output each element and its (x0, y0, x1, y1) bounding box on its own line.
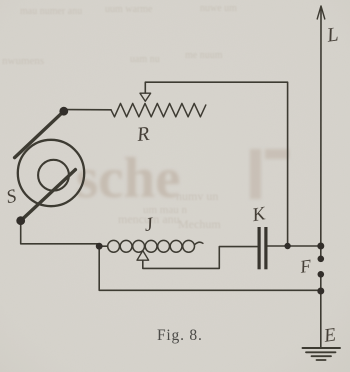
node: coil branch (96, 243, 103, 250)
device S : inner circle (38, 160, 69, 191)
potentiometer wiper triangle on R (140, 93, 151, 101)
coil J lead (99, 245, 108, 247)
antenna wire (vertical) upper part (320, 7, 322, 259)
svg-text:R: R (135, 123, 150, 146)
node: S top terminal (59, 107, 68, 116)
wire from coil wiper down right and up to capacitor (143, 247, 257, 269)
coil J end tail (194, 242, 203, 245)
resistor R zigzag (111, 103, 206, 116)
capacitor K plates (258, 227, 268, 269)
svg-text:uam nu: uam nu (130, 54, 160, 65)
wire from S top dot to resistor (66, 109, 111, 111)
wire from capacitor right plate to main line (268, 245, 321, 247)
node: S bottom terminal (16, 216, 25, 225)
coil wiper triangle (137, 251, 149, 261)
node: gap F upper electrode (318, 255, 325, 262)
svg-text:nuwe um: nuwe um (200, 3, 237, 14)
antenna wire lower part below gap F (320, 274, 322, 348)
svg-text:me nuum: me nuum (185, 50, 223, 61)
ground symbol lines (303, 347, 341, 349)
svg-text:sche: sche (76, 147, 180, 210)
wire from R wiper up, right, down to capacitor node (145, 82, 287, 244)
antenna arrow head (317, 6, 325, 19)
node: capacitor wire joins main line (317, 243, 324, 250)
svg-text:uum warme: uum warme (105, 4, 153, 15)
spark-gap/interrupter device S : outer circle (18, 140, 84, 206)
device S : lower lever (21, 170, 76, 221)
wire node down to bottom bus (99, 246, 321, 290)
wire from S bottom dot down and right to coil node (21, 221, 100, 247)
svg-text:Mechum: Mechum (178, 217, 221, 231)
svg-text:numv un: numv un (176, 189, 218, 203)
device S : upper lever (15, 111, 64, 157)
bleed-through ghost text (76, 147, 289, 210)
node: bottom bus joins main line (317, 288, 324, 295)
svg-text:Fig. 8.: Fig. 8. (157, 327, 203, 344)
node: gap F lower electrode (318, 271, 325, 278)
node: R wiper line joins capacitor wire (284, 243, 290, 249)
svg-text:mau numer anu: mau numer anu (20, 6, 82, 17)
coil J loops (108, 240, 120, 252)
svg-text:nwumens: nwumens (2, 55, 44, 67)
